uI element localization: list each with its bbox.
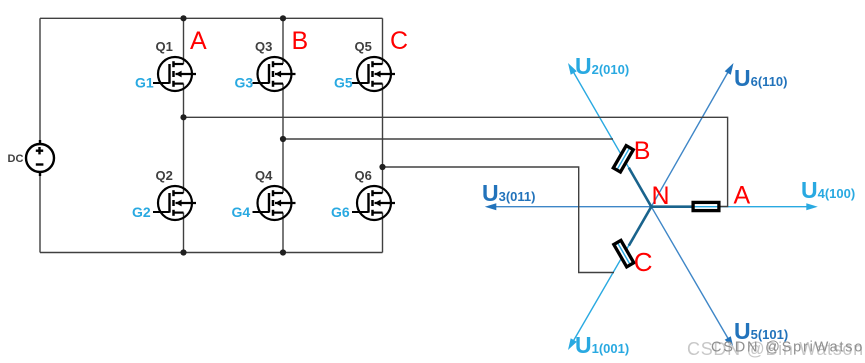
svg-text:Q3: Q3: [255, 39, 272, 54]
svg-text:Q2: Q2: [156, 168, 173, 183]
svg-text:Q5: Q5: [355, 39, 372, 54]
svg-text:Q1: Q1: [156, 39, 173, 54]
svg-text:C: C: [390, 27, 408, 55]
svg-text:CSDN @SpriWatson: CSDN @SpriWatson: [711, 340, 865, 356]
svg-text:C: C: [634, 247, 653, 277]
svg-text:G1: G1: [135, 75, 154, 91]
svg-text:N: N: [652, 182, 670, 210]
svg-text:B: B: [634, 137, 651, 165]
svg-text:A: A: [734, 182, 751, 210]
svg-text:B: B: [292, 27, 309, 55]
svg-text:G6: G6: [331, 204, 350, 220]
svg-text:Q4: Q4: [255, 168, 273, 183]
svg-text:Q6: Q6: [355, 168, 372, 183]
svg-text:G3: G3: [235, 75, 254, 91]
svg-text:A: A: [190, 27, 207, 55]
svg-text:G2: G2: [132, 204, 151, 220]
svg-text:G5: G5: [334, 75, 353, 91]
svg-text:DC: DC: [8, 153, 24, 165]
svg-text:G4: G4: [232, 204, 251, 220]
